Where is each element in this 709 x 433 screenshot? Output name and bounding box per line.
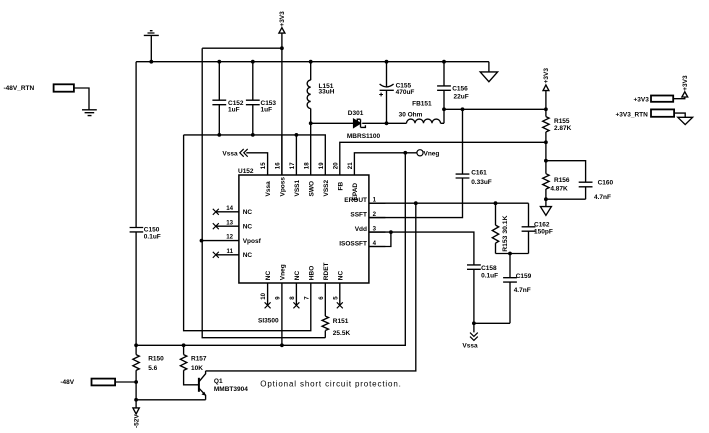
svg-text:Q1: Q1 — [214, 378, 223, 385]
svg-text:SSFT: SSFT — [350, 212, 367, 219]
svg-text:1uF: 1uF — [228, 107, 240, 114]
resistor R153 — [492, 203, 498, 253]
svg-text:-52V: -52V — [134, 414, 141, 428]
wire divider mid — [545, 132, 547, 174]
svg-text:FB151: FB151 — [412, 100, 432, 107]
power +3V3 arrow (divider top) — [543, 85, 549, 117]
svg-text:EROUT: EROUT — [344, 197, 367, 204]
wire Vneg pin9 drop — [281, 283, 283, 345]
svg-text:NC: NC — [337, 271, 344, 281]
IC U1 body SI3500 — [239, 175, 369, 283]
power Vssa chevron (left, at pin 15) — [240, 149, 248, 157]
svg-text:HBO: HBO — [308, 266, 315, 280]
pin stubs left 14,13,12,11 — [202, 212, 239, 255]
svg-text:Vssa: Vssa — [222, 150, 238, 157]
svg-text:10: 10 — [260, 292, 267, 299]
resistor R151 — [322, 283, 328, 338]
svg-text:12: 12 — [226, 234, 233, 241]
svg-text:NC: NC — [265, 271, 272, 281]
wire EROUT to Q1 collector — [206, 203, 416, 371]
svg-text:Vneg: Vneg — [424, 150, 440, 157]
power Vssa chevron (down, below C158) — [470, 333, 478, 341]
ground (triangle below R156) — [540, 189, 551, 215]
wire R153/C162 bottom y=253.5 — [496, 253, 529, 255]
ground (earth, below -48V_RTN) — [82, 110, 97, 116]
svg-text:Vdd: Vdd — [355, 226, 367, 233]
svg-text:0.1uF: 0.1uF — [481, 273, 498, 280]
capacitor C159 — [503, 254, 517, 324]
capacitor C152 — [212, 62, 226, 135]
svg-text:VSS1: VSS1 — [294, 179, 301, 196]
svg-text:4.87K: 4.87K — [550, 186, 568, 193]
wire EPAD to Vneg circle — [354, 153, 417, 175]
wire EROUT net y=203.2 — [369, 202, 529, 204]
svg-text:0.1uF: 0.1uF — [144, 234, 161, 241]
wire FB net pin20 to divider — [340, 142, 546, 175]
ground (earth, top-left inverted) — [144, 31, 159, 62]
svg-text:0.33uF: 0.33uF — [471, 179, 492, 186]
wire Q1 emitter return — [136, 399, 206, 401]
svg-text:MBRS1100: MBRS1100 — [347, 133, 381, 140]
svg-text:21: 21 — [347, 162, 354, 169]
X no-connect marks — [213, 209, 343, 308]
pin stubs right 1,2,3,4 — [369, 203, 386, 246]
svg-text:NC: NC — [243, 252, 253, 259]
svg-text:4.7nF: 4.7nF — [594, 194, 611, 201]
capacitor C160 branch — [546, 161, 593, 200]
svg-text:-48V: -48V — [60, 379, 74, 386]
svg-text:R151: R151 — [333, 318, 349, 325]
svg-text:Vposf: Vposf — [243, 238, 262, 245]
wire SSFT net (C161 to pin 2) — [369, 178, 463, 218]
svg-text:VSS2: VSS2 — [323, 179, 330, 196]
svg-text:R156: R156 — [554, 177, 570, 184]
capacitor C161 — [456, 109, 470, 178]
svg-text:7: 7 — [303, 296, 310, 300]
svg-text:RDET: RDET — [323, 262, 330, 280]
svg-text:FB: FB — [337, 182, 344, 191]
port -48V box — [92, 379, 137, 386]
capacitor C150 — [130, 228, 144, 232]
svg-text:16: 16 — [275, 162, 282, 169]
wire C158/C159 bottom y=323.3 — [474, 322, 510, 324]
ferrite bead FB151 coil — [407, 119, 441, 123]
wire HBO loop x=183.6 / rail y=134.9 — [184, 135, 326, 175]
wire Vneg main bottom net — [136, 153, 405, 345]
svg-text:Vposs: Vposs — [280, 177, 287, 197]
svg-text:C160: C160 — [598, 179, 614, 186]
svg-text:ISOSSFT: ISOSSFT — [339, 240, 367, 247]
node Vneg circle — [417, 150, 423, 156]
svg-text:13: 13 — [226, 219, 233, 226]
svg-text:20: 20 — [332, 162, 339, 169]
port +3V3_RTN box — [651, 109, 693, 124]
wire SWO pin18 drop — [310, 123, 312, 175]
svg-text:+3V3: +3V3 — [543, 68, 550, 84]
wire top GND rail y=61.7 — [136, 61, 489, 63]
resistor R150 — [133, 355, 139, 371]
svg-text:U152: U152 — [238, 168, 254, 175]
svg-text:5.6: 5.6 — [148, 365, 157, 372]
svg-text:R150: R150 — [148, 355, 164, 362]
svg-text:C150: C150 — [144, 226, 160, 233]
svg-text:+3V3_RTN: +3V3_RTN — [616, 112, 649, 119]
wire +3V3 upper branch y=48.2 — [202, 47, 282, 49]
capacitor C153 — [246, 62, 260, 135]
svg-text:470uF: 470uF — [396, 89, 415, 96]
pin stubs bottom NC 10,8,5 — [268, 283, 340, 305]
svg-text:9: 9 — [275, 296, 282, 300]
resistor R155 — [543, 117, 549, 132]
svg-text:25.5K: 25.5K — [333, 330, 351, 337]
wire Vdd net + capacitor C158 — [369, 232, 481, 332]
svg-text:R157: R157 — [191, 355, 207, 362]
inductor L151 — [307, 62, 311, 124]
svg-text:NC: NC — [243, 209, 253, 216]
capacitor C162 — [522, 203, 536, 253]
svg-text:19: 19 — [318, 162, 325, 169]
wire diode row y=123.3 — [311, 122, 444, 124]
resistor R157 — [180, 345, 198, 385]
svg-text:33uH: 33uH — [319, 88, 335, 95]
wire x=202.2 vertical (Vposf/R151 net) — [202, 48, 325, 338]
capacitor C155 (polarized) — [379, 62, 394, 124]
svg-text:C156: C156 — [452, 85, 468, 92]
svg-text:Vneg: Vneg — [280, 264, 287, 280]
svg-text:30 Ohm: 30 Ohm — [399, 112, 423, 119]
svg-text:R153 30.1K: R153 30.1K — [502, 215, 509, 251]
capacitor C156 — [437, 62, 451, 124]
svg-text:SWO: SWO — [308, 181, 315, 197]
svg-text:C158: C158 — [481, 265, 497, 272]
svg-text:4.7nF: 4.7nF — [514, 287, 531, 294]
svg-text:22uF: 22uF — [454, 93, 469, 100]
wire ISOSSFT tie to Vdd — [369, 232, 391, 246]
power -52V arrow — [133, 408, 139, 414]
svg-text:Optional short circuit protect: Optional short circuit protection. — [260, 380, 401, 389]
svg-text:1uF: 1uF — [261, 107, 273, 114]
svg-text:MMBT3904: MMBT3904 — [214, 386, 248, 393]
svg-text:NC: NC — [294, 271, 301, 281]
svg-text:+3V3: +3V3 — [634, 96, 650, 103]
svg-text:6: 6 — [318, 296, 325, 300]
svg-text:2.87K: 2.87K — [554, 125, 572, 132]
svg-text:Vssa: Vssa — [265, 181, 272, 197]
diode D301 MBRS1100 — [354, 119, 366, 127]
svg-text:11: 11 — [227, 248, 234, 255]
svg-text:-48V_RTN: -48V_RTN — [4, 85, 35, 92]
svg-text:150pF: 150pF — [534, 229, 553, 236]
resistor R156 — [543, 174, 549, 189]
svg-text:15: 15 — [260, 162, 267, 169]
wire Vssa pin15 — [246, 153, 267, 175]
pin stubs top 16,17,19 — [282, 135, 297, 175]
svg-text:C161: C161 — [471, 170, 487, 177]
svg-text:10K: 10K — [191, 365, 203, 372]
port +3V3 box (far right) — [651, 92, 688, 102]
svg-text:C162: C162 — [534, 222, 550, 229]
svg-text:D301: D301 — [348, 110, 364, 117]
svg-text:+3V3: +3V3 — [682, 75, 689, 91]
ground (triangle at right end of top rail) — [480, 62, 497, 82]
svg-text:5: 5 — [332, 296, 339, 300]
svg-text:NC: NC — [243, 224, 253, 231]
transistor Q1 MMBT3904 — [199, 371, 206, 400]
svg-text:Vssa: Vssa — [462, 342, 478, 349]
svg-text:8: 8 — [289, 296, 296, 300]
svg-text:14: 14 — [226, 205, 233, 212]
wire left vertical -48V column x=136.1 — [135, 62, 137, 408]
svg-text:C159: C159 — [516, 273, 532, 280]
svg-text:17: 17 — [289, 162, 296, 169]
svg-text:SI3500: SI3500 — [258, 318, 279, 325]
power +3V3 arrow (top center) — [279, 28, 285, 175]
port -48V_RTN box — [54, 84, 89, 109]
svg-text:+3V3: +3V3 — [279, 11, 286, 27]
wire FB divider feed y=109.3 — [444, 108, 546, 110]
svg-text:18: 18 — [303, 162, 310, 169]
